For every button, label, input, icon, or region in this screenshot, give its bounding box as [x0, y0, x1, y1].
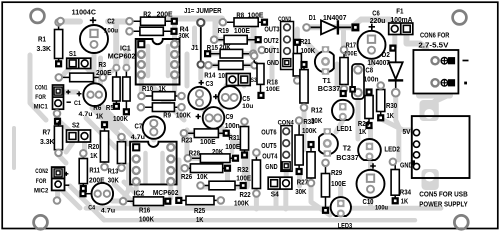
wire: IC1 pads down to R10 [141, 80, 174, 94]
svg-text:R19: R19 [218, 26, 229, 35]
svg-text:OUT2: OUT2 [264, 36, 279, 45]
svg-text:100E: 100E [200, 137, 216, 146]
wire: F1 right to CON6 [407, 34, 427, 52]
wire: LED1 to T2 diagonal [336, 120, 343, 132]
svg-text:100K: 100K [113, 114, 129, 123]
resistor R5 [123, 65, 130, 116]
svg-text:30K: 30K [295, 187, 307, 196]
wire: left edge lower vertical [12, 128, 16, 168]
mounting hole top-right [453, 11, 467, 25]
transistor T1 outline [315, 46, 334, 75]
label + C2 [90, 17, 96, 23]
wire: vertical trace left of C1 [98, 58, 103, 84]
wire: trace under R28 [190, 156, 232, 161]
diode D1 1N4007 [303, 20, 359, 34]
resistor R33 body [295, 117, 303, 175]
svg-text:CON4: CON4 [278, 119, 294, 126]
resistor R13 body [117, 134, 125, 171]
svg-text:LED1: LED1 [337, 124, 353, 133]
wire: C1 to R13 diagonal [96, 107, 118, 128]
resistor R17 body [340, 47, 348, 93]
svg-text:R26: R26 [181, 172, 192, 181]
wire: vertical x187 lower [185, 130, 190, 160]
svg-text:MCP602: MCP602 [153, 188, 179, 197]
wire: CON1 top cell to C1 [63, 90, 77, 95]
wire: vertical C2 pad to R6 pad [113, 23, 119, 66]
LED1 feed pad [340, 90, 347, 97]
resistor R25 body [175, 196, 224, 205]
svg-text:T2: T2 [343, 144, 351, 153]
wire: middle vertical x187 [185, 54, 190, 86]
svg-text:OUT1: OUT1 [264, 46, 279, 55]
wire: top-left horizontal trace [60, 19, 80, 25]
svg-text:OUT6: OUT6 [261, 128, 276, 137]
resistor R21 body [293, 39, 301, 84]
C6 plus mark [369, 24, 375, 30]
svg-text:CON6 FOR: CON6 FOR [420, 31, 450, 40]
transistor T2 outline [319, 128, 338, 157]
wire: F1 left cell feed [392, 34, 397, 47]
wire: trace C2 right to R2 pad [108, 19, 130, 25]
wire: C2 bottom down [92, 55, 97, 82]
wire: R32 pad to bus [254, 194, 259, 209]
svg-text:OUT3: OUT3 [264, 24, 279, 33]
resistor R19 body [211, 35, 262, 44]
wire: under R19/R15 [208, 40, 256, 54]
svg-text:100E: 100E [234, 26, 250, 35]
wire: C7 to IC2 notch [151, 133, 156, 140]
svg-text:OUT5: OUT5 [261, 141, 276, 150]
svg-text:FOR: FOR [35, 94, 46, 101]
USB connector CON5 [411, 100, 470, 190]
svg-text:C4: C4 [88, 205, 95, 212]
svg-text:100E: 100E [225, 142, 240, 151]
svg-text:10K: 10K [197, 172, 209, 181]
svg-text:1K: 1K [401, 197, 409, 206]
svg-text:GND: GND [400, 160, 413, 169]
svg-text:R13: R13 [108, 166, 119, 175]
wire: CON2 bottom cell down [55, 190, 60, 199]
svg-text:R31: R31 [229, 133, 240, 142]
mounting hole bottom-left [34, 215, 48, 229]
capacitor C9 outline [203, 107, 225, 129]
svg-text:R17: R17 [346, 40, 357, 49]
wire: LED3 feed [338, 188, 343, 196]
svg-text:C9: C9 [226, 112, 234, 121]
wire: D1 pad to F1 top band [352, 20, 395, 28]
svg-text:100K: 100K [302, 126, 317, 135]
wire: diagonal under R9 [163, 100, 184, 120]
svg-text:100u: 100u [104, 27, 118, 34]
svg-text:1K: 1K [359, 127, 367, 136]
capacitor C7 outline [143, 116, 165, 138]
resistor R20 body [100, 121, 108, 170]
svg-text:R7: R7 [43, 127, 51, 136]
svg-text:R2: R2 [143, 10, 151, 19]
svg-text:GND: GND [265, 162, 278, 171]
svg-text:D2: D2 [382, 50, 390, 59]
svg-text:20K: 20K [219, 43, 231, 52]
wire: IC1 internal strips [148, 46, 168, 76]
svg-text:C7: C7 [135, 121, 143, 130]
svg-text:C8: C8 [365, 65, 373, 74]
svg-text:S3: S3 [251, 77, 257, 84]
C4 square pad [79, 190, 86, 197]
svg-text:CON2: CON2 [35, 168, 48, 175]
wire: S4 right cell to bus [276, 188, 286, 209]
node pad GND [390, 159, 397, 166]
svg-text:3.3K: 3.3K [37, 44, 52, 53]
svg-text:1K: 1K [196, 215, 204, 224]
resistor R7 body [54, 121, 62, 156]
resistor R28 body [185, 154, 240, 163]
wire: D1 trace [307, 24, 352, 30]
svg-text:R9: R9 [163, 111, 171, 120]
svg-text:30K: 30K [311, 116, 323, 125]
node pad below CON2 [54, 197, 61, 204]
wire: trace near IC1 right [192, 28, 197, 45]
wire: R21 pad up to D1 line [295, 29, 300, 40]
node pad left of C2 [57, 18, 64, 25]
fuse F1 block [389, 23, 413, 35]
wire: bottom bus A [86, 206, 441, 211]
svg-text:1N4007: 1N4007 [323, 13, 347, 22]
svg-text:S1: S1 [69, 49, 77, 58]
wire: trace under R26 [187, 166, 225, 171]
wire: R31 pad to S4 [242, 157, 247, 176]
CON1 minus mark [67, 101, 71, 103]
svg-text:C10: C10 [363, 197, 374, 206]
C9 plus mark [196, 114, 201, 119]
wire: J1 bottom pad to C3 plus [198, 67, 203, 79]
svg-text:1K: 1K [159, 84, 167, 93]
wire: J1 jumper top band [154, 16, 222, 22]
resistor R2 body [126, 17, 178, 25]
wire: R16 pad stub [112, 199, 122, 204]
wire: R31 pad vertical [230, 137, 235, 152]
mounting hole top-left [31, 9, 45, 23]
wire: vertical x179 rows join [177, 160, 182, 199]
svg-text:200E: 200E [96, 68, 112, 77]
svg-text:3.3K: 3.3K [40, 137, 55, 146]
svg-text:D1: D1 [309, 13, 316, 22]
svg-text:1K: 1K [387, 111, 395, 120]
svg-text:200E: 200E [157, 10, 173, 19]
wire: T1 right to LED1 [337, 64, 343, 92]
C4 feed wire [86, 193, 92, 195]
wire: IC2 pads to R16 row [136, 186, 171, 198]
svg-text:10u: 10u [242, 103, 253, 110]
svg-text:C1: C1 [74, 100, 81, 107]
resistor R27 body [307, 141, 315, 186]
wire: R33 pad down [297, 174, 302, 186]
resistor R32 body [252, 149, 260, 197]
capacitor C3 outline [188, 87, 211, 110]
wire: R3 right pad to R6 [103, 70, 113, 77]
node square pad left of C8 [349, 86, 356, 93]
node pad near OUT1 [259, 47, 266, 54]
svg-text:IC2: IC2 [134, 188, 145, 197]
wire: C3 to C9 diagonal [199, 103, 209, 117]
svg-text:S4: S4 [271, 190, 280, 199]
diode D2 1N4007 [388, 45, 403, 97]
node pad below CON1 [54, 110, 61, 117]
wire: CON2 diag 2 [70, 186, 104, 220]
resistor R30 body [377, 82, 385, 121]
resistor R1 body [55, 19, 63, 67]
svg-text:R27: R27 [297, 177, 308, 186]
svg-text:4.7u: 4.7u [79, 111, 93, 118]
resistor R3 body [56, 73, 107, 82]
svg-text:J1= JUMPER: J1= JUMPER [184, 6, 222, 15]
wire: CON6 bottom to USB lug [419, 94, 450, 106]
svg-text:C5: C5 [242, 94, 250, 103]
C3 plus mark label [199, 80, 204, 85]
resistor R15 body [204, 49, 257, 58]
svg-text:1K: 1K [96, 111, 104, 120]
svg-text:1K: 1K [90, 151, 98, 160]
svg-text:100n: 100n [225, 121, 240, 130]
wire: vertical right of T2 [396, 96, 399, 160]
svg-text:2.7-5.5V: 2.7-5.5V [418, 40, 448, 49]
svg-text:R34: R34 [400, 187, 412, 196]
resistor R11 body [79, 150, 87, 192]
svg-text:CON5 FOR USB: CON5 FOR USB [419, 190, 467, 199]
wire: under R14 [209, 63, 253, 68]
svg-text:R23: R23 [181, 135, 192, 144]
svg-text:100n: 100n [364, 74, 379, 83]
connector CON4 [281, 126, 292, 172]
svg-text:MCP602: MCP602 [108, 52, 136, 61]
LED3 outline [331, 197, 351, 217]
resistor R18 [251, 53, 265, 100]
svg-text:100K: 100K [301, 46, 316, 55]
jumper S3 block [227, 74, 251, 86]
capacitor C6 outline [358, 31, 386, 59]
svg-text:C3: C3 [206, 79, 214, 88]
resistor R34 body [391, 165, 399, 205]
svg-text:S2: S2 [72, 121, 80, 130]
capacitor C5 outline [218, 86, 241, 109]
wire: R7 pad down [59, 155, 67, 163]
IC1 DIP-8 package [136, 39, 180, 85]
wire: C10 to bus [368, 198, 373, 207]
svg-text:20K: 20K [212, 147, 224, 156]
wire: vertical trace x215 [213, 21, 219, 39]
svg-text:FOR: FOR [36, 178, 47, 185]
wire: CON4 GND to S4 [284, 170, 289, 178]
wire: trace under S3 [226, 80, 244, 87]
jumper wire J1 [197, 19, 204, 68]
svg-text:OUT4: OUT4 [262, 152, 278, 161]
svg-text:11004C: 11004C [72, 9, 96, 16]
resistor R8 body [220, 18, 269, 27]
svg-text:30K: 30K [178, 31, 190, 40]
wire: S2 cells to R11 [66, 143, 85, 152]
svg-text:4.7u: 4.7u [131, 134, 145, 141]
CON6 minus mark [463, 60, 469, 62]
node square pad below CON1 [54, 118, 61, 125]
svg-text:R29: R29 [331, 168, 342, 177]
wire: CON1 pad diagonal to S2 [58, 120, 70, 131]
svg-text:C2: C2 [107, 16, 115, 25]
capacitor C2 outline [80, 25, 108, 53]
svg-text:BC337: BC337 [318, 84, 341, 93]
svg-text:R1: R1 [38, 35, 46, 44]
svg-text:R20: R20 [88, 142, 99, 151]
capacitor C4 outline [92, 183, 114, 205]
CON6 plus dot [464, 82, 467, 85]
resistor R4 body [126, 27, 177, 35]
wire: vertical R2 pad to IC1 [172, 23, 177, 40]
svg-text:R16: R16 [139, 206, 150, 215]
wire: S1 cells to R3 row [64, 65, 92, 74]
resistor R14 body [205, 61, 258, 70]
svg-text:5V: 5V [403, 127, 411, 136]
resistor R29 body [321, 160, 329, 214]
C1 plus mark [77, 91, 82, 96]
jumper S1 block [67, 58, 91, 68]
resistor R6 [113, 65, 120, 110]
svg-text:LED2: LED2 [384, 144, 400, 153]
resistor R9 body [138, 103, 185, 112]
resistor R23 body [181, 129, 230, 138]
LED1 outline [332, 100, 354, 121]
wire: R27 to LED3 vertical [311, 185, 330, 215]
svg-text:MIC1: MIC1 [34, 103, 48, 110]
wire: C9 to CON4 diagonal [222, 128, 246, 152]
resistor R12 body [300, 61, 308, 111]
svg-text:R21: R21 [300, 37, 311, 46]
svg-text:100K: 100K [234, 199, 250, 208]
CON1 plus mark [66, 90, 70, 94]
svg-text:4.7u: 4.7u [101, 208, 115, 215]
resistor R24 body [365, 88, 373, 129]
wire: R12 to T2 vertical [302, 110, 307, 150]
jumper S2 block [67, 130, 91, 142]
resistor R22 body [197, 181, 247, 190]
svg-text:MIC2: MIC2 [34, 188, 49, 195]
connector CON1 [53, 85, 64, 109]
svg-text:R15: R15 [207, 43, 218, 52]
wire: R26 pad down [225, 170, 230, 186]
svg-text:100u: 100u [375, 204, 388, 211]
mounting hole bottom-right [454, 215, 468, 229]
resistor R31 body [240, 118, 248, 158]
svg-text:100E: 100E [266, 86, 281, 93]
LED2 outline [358, 139, 381, 160]
svg-text:CON3: CON3 [278, 16, 292, 23]
svg-text:R11: R11 [89, 166, 100, 175]
wire: trace under R23 [186, 131, 222, 136]
svg-text:CON1: CON1 [35, 85, 48, 92]
wire: T1 to R21 diagonal [307, 43, 318, 54]
resistor R26 body [181, 164, 231, 173]
C10 plus mark [370, 163, 376, 169]
wire: IC1 to C3 diagonals [152, 86, 172, 106]
svg-text:LED3: LED3 [338, 221, 353, 230]
wire: trace under R22 [201, 185, 236, 190]
wire: C8 to LED2 vertical [356, 100, 361, 139]
resistor R16 body [120, 197, 172, 206]
IC2 DIP-8 package [130, 142, 177, 185]
svg-text:R8: R8 [236, 11, 244, 20]
svg-text:100E: 100E [331, 179, 346, 188]
wire: R17 feed vertical [341, 31, 346, 49]
svg-text:100E: 100E [248, 11, 264, 20]
wire: CON1 bottom cell down [55, 104, 60, 120]
wire: C4 to bus diagonals [114, 182, 148, 207]
connector CON2 [52, 167, 65, 190]
wire: C6 bottom stub [369, 59, 374, 65]
jumper S4 block [268, 177, 292, 189]
svg-text:R28: R28 [189, 149, 200, 158]
wire: R22 pad to S4 area [239, 185, 248, 190]
wire: mid-left diagonal bundle [86, 104, 136, 148]
svg-text:J1: J1 [191, 43, 199, 52]
wire: bottom bus B [104, 218, 415, 222]
CON2 plus mark [64, 172, 68, 176]
connector CON6 terminal block [413, 50, 458, 94]
capacitor C10 outline [357, 170, 385, 198]
wire: CON3 out stubs [270, 48, 275, 78]
svg-text:C6: C6 [372, 9, 380, 18]
svg-text:R10: R10 [142, 84, 153, 93]
svg-text:BC337: BC337 [336, 153, 359, 162]
svg-text:GND: GND [267, 58, 280, 67]
svg-text:F1: F1 [396, 7, 403, 16]
svg-text:R25: R25 [194, 206, 205, 215]
wire: vertical trace x253 [251, 26, 257, 55]
wire: R13 to IC2 left [124, 165, 129, 198]
wire: R30 pad to CON5 5V [381, 119, 411, 130]
wire: vertical near CON4 [245, 152, 250, 186]
svg-text:R12: R12 [311, 105, 323, 114]
svg-text:100K: 100K [176, 111, 192, 120]
capacitor C8 [352, 64, 364, 99]
wire: CON2 to C4 diagonal [60, 188, 80, 208]
svg-text:POWER SUPPLY: POWER SUPPLY [419, 200, 468, 209]
svg-text:100mA: 100mA [391, 17, 413, 24]
CON2 minus mark [65, 184, 69, 186]
svg-text:R30: R30 [386, 101, 397, 110]
connector CON3 [281, 22, 294, 70]
wire: R24 bottom to LED2 [368, 128, 373, 138]
wire: left edge vertical trace [30, 55, 46, 120]
svg-text:30K: 30K [108, 175, 120, 184]
svg-text:100E: 100E [236, 173, 251, 182]
wire: vertical to R5 pad [123, 50, 129, 66]
svg-text:100K: 100K [139, 215, 155, 224]
wire: C5 to C9 diagonal [218, 98, 225, 117]
wire: LED2 to C10 [368, 161, 373, 170]
capacitor C1 outline [83, 83, 106, 106]
svg-text:100E: 100E [344, 51, 358, 58]
svg-text:R5: R5 [106, 103, 114, 112]
plus between C3 C5 [213, 94, 218, 99]
wire: IC2 internal strips [146, 153, 163, 183]
resistor R10 body [138, 92, 185, 101]
